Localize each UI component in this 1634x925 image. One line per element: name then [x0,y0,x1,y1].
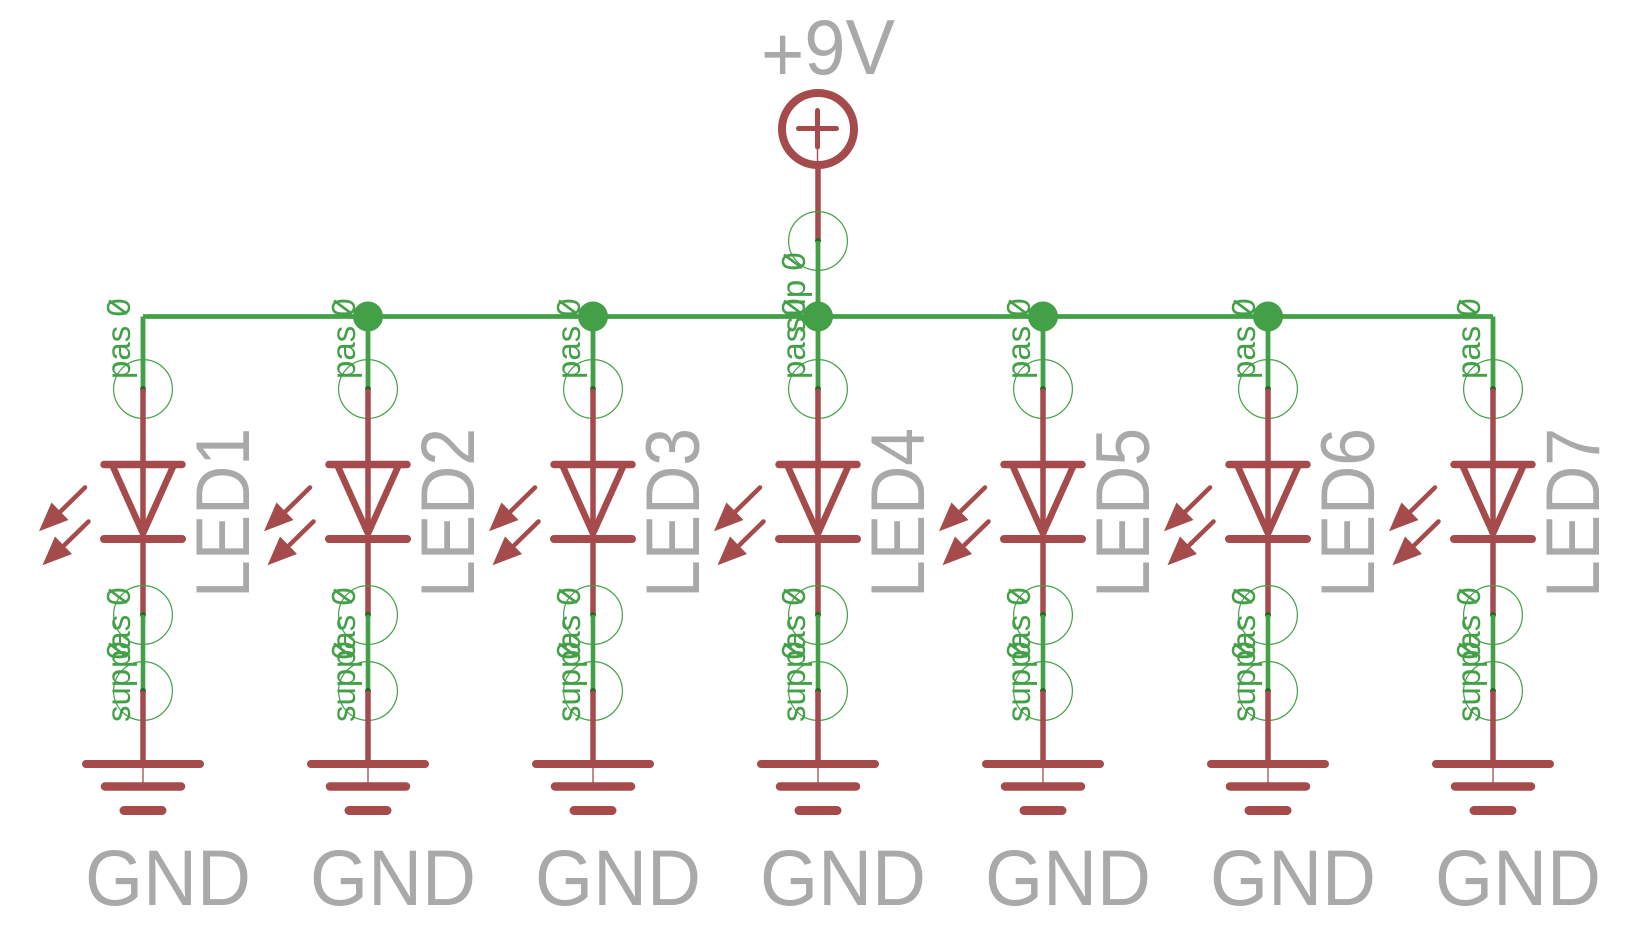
junction dot at x=818 [803,302,833,332]
svg-text:sup 0: sup 0 [100,641,137,722]
ground GND7 [1436,691,1550,811]
junction dot at x=1268 [1253,302,1283,332]
label LED7 [1531,428,1616,598]
svg-text:pas 0: pas 0 [1450,298,1487,379]
label pas 0 (LED1 anode pin) [100,298,137,379]
wire: LED4 cathode to GND [816,615,821,691]
wire: bus to LED3 anode [591,317,596,390]
pin circle GND4 [789,662,848,721]
LED LED6 [1164,389,1307,615]
wire: bus to LED7 anode [1491,317,1496,390]
pin circle GND7 [1464,662,1523,721]
label sup 0 (GND2 pin) [325,641,362,722]
label pas 0 (LED5 anode pin) [1000,298,1037,379]
svg-text:GND: GND [760,833,926,922]
wire: LED3 cathode to GND [591,615,596,691]
pin circle LED5 anode [1014,360,1073,419]
label LED1 [181,428,266,598]
pin circle GND3 [564,662,623,721]
pin circle LED6 cathode [1239,586,1298,645]
wire: LED2 cathode to GND [366,615,371,691]
label LED5 [1081,428,1166,598]
svg-text:sup 0: sup 0 [1450,641,1487,722]
label sup 0 (GND3 pin) [550,641,587,722]
svg-text:LED7: LED7 [1531,428,1616,598]
junction dot at x=1043 [1028,302,1058,332]
wire: bus to LED6 anode [1266,317,1271,390]
svg-text:pas 0: pas 0 [1000,298,1037,379]
label GND (branch 5) [985,833,1151,922]
svg-text:pas 0: pas 0 [775,298,812,379]
LED LED4 [714,389,857,615]
label pas 0 (LED1 cathode pin) [100,587,137,668]
LED LED3 [489,389,632,615]
label pas 0 (LED2 anode pin) [325,298,362,379]
LED LED1 [39,389,182,615]
svg-text:pas 0: pas 0 [550,298,587,379]
wire: LED1 cathode to GND [141,615,146,691]
label GND (branch 1) [85,833,251,922]
wire: LED7 cathode to GND [1491,615,1496,691]
label pas 0 (LED7 anode pin) [1450,298,1487,379]
pin circle LED1 cathode [114,586,173,645]
svg-text:LED1: LED1 [181,428,266,598]
svg-text:GND: GND [1210,833,1376,922]
pin circle LED3 cathode [564,586,623,645]
svg-text:sup 0: sup 0 [775,641,812,722]
svg-text:+9V: +9V [761,3,895,98]
wire: supply to bus [816,241,821,317]
label pas 0 (LED6 cathode pin) [1225,587,1262,668]
pin circle GND5 [1014,662,1073,721]
label pas 0 (LED3 cathode pin) [550,587,587,668]
pin circle LED1 anode [114,360,173,419]
label pas 0 (LED7 cathode pin) [1450,587,1487,668]
svg-text:GND: GND [1435,833,1601,922]
svg-text:sup 0: sup 0 [325,641,362,722]
pin circle GND6 [1239,662,1298,721]
label +9V [761,3,895,98]
svg-text:LED6: LED6 [1306,428,1391,598]
wire: bus to LED5 anode [1041,317,1046,390]
label pas 0 (LED6 anode pin) [1225,298,1262,379]
pin circle LED6 anode [1239,360,1298,419]
supply symbol +9V (circle with plus) [782,93,854,168]
ground GND3 [536,691,650,811]
pin circle supply [789,212,848,271]
svg-text:pas 0: pas 0 [1225,298,1262,379]
label GND (branch 7) [1435,833,1601,922]
label pas 0 (LED4 cathode pin) [775,587,812,668]
label pas 0 (LED5 cathode pin) [1000,587,1037,668]
wire: LED5 cathode to GND [1041,615,1046,691]
label pas 0 (LED3 anode pin) [550,298,587,379]
label sup 0 (GND4 pin) [775,641,812,722]
pin circle GND1 [114,662,173,721]
pin circle LED7 anode [1464,360,1523,419]
svg-text:GND: GND [985,833,1151,922]
svg-text:sup 0: sup 0 [550,641,587,722]
pin circle LED7 cathode [1464,586,1523,645]
ground GND2 [311,691,425,811]
pin circle LED3 anode [564,360,623,419]
ground GND1 [86,691,200,811]
svg-text:LED2: LED2 [406,428,491,598]
junction dot at x=593 [578,302,608,332]
pin circle LED2 cathode [339,586,398,645]
supply pin wire [815,168,821,241]
label sup 0 (GND5 pin) [1000,641,1037,722]
label GND (branch 4) [760,833,926,922]
label LED6 [1306,428,1391,598]
pin circle GND2 [339,662,398,721]
LED LED5 [939,389,1082,615]
label LED2 [406,428,491,598]
svg-text:pas 0: pas 0 [100,298,137,379]
label GND (branch 2) [310,833,476,922]
svg-text:pas 0: pas 0 [325,298,362,379]
label LED4 [856,428,941,598]
label sup 0 (supply pin) [775,252,812,333]
pin circle LED2 anode [339,360,398,419]
pin circle LED4 anode [789,360,848,419]
LED LED2 [264,389,407,615]
junction dot at x=368 [353,302,383,332]
ground GND5 [986,691,1100,811]
svg-text:GND: GND [310,833,476,922]
svg-text:LED5: LED5 [1081,428,1166,598]
label GND (branch 3) [535,833,701,922]
svg-text:sup 0: sup 0 [1000,641,1037,722]
svg-text:GND: GND [85,833,251,922]
label pas 0 (LED2 cathode pin) [325,587,362,668]
ground GND6 [1211,691,1325,811]
wire: bus to LED2 anode [366,317,371,390]
pin circle LED4 cathode [789,586,848,645]
label sup 0 (GND1 pin) [100,641,137,722]
svg-text:LED4: LED4 [856,428,941,598]
LED LED7 [1389,389,1532,615]
svg-text:GND: GND [535,833,701,922]
label LED3 [631,428,716,598]
label sup 0 (GND7 pin) [1450,641,1487,722]
pin circle LED5 cathode [1014,586,1073,645]
wire: bus to LED1 anode [141,317,146,390]
svg-text:sup 0: sup 0 [1225,641,1262,722]
bus wire net N$1 [143,314,1493,319]
wire: LED6 cathode to GND [1266,615,1271,691]
label sup 0 (GND6 pin) [1225,641,1262,722]
ground GND4 [761,691,875,811]
wire: bus to LED4 anode [816,317,821,390]
label pas 0 (LED4 anode pin) [775,298,812,379]
svg-text:LED3: LED3 [631,428,716,598]
label GND (branch 6) [1210,833,1376,922]
